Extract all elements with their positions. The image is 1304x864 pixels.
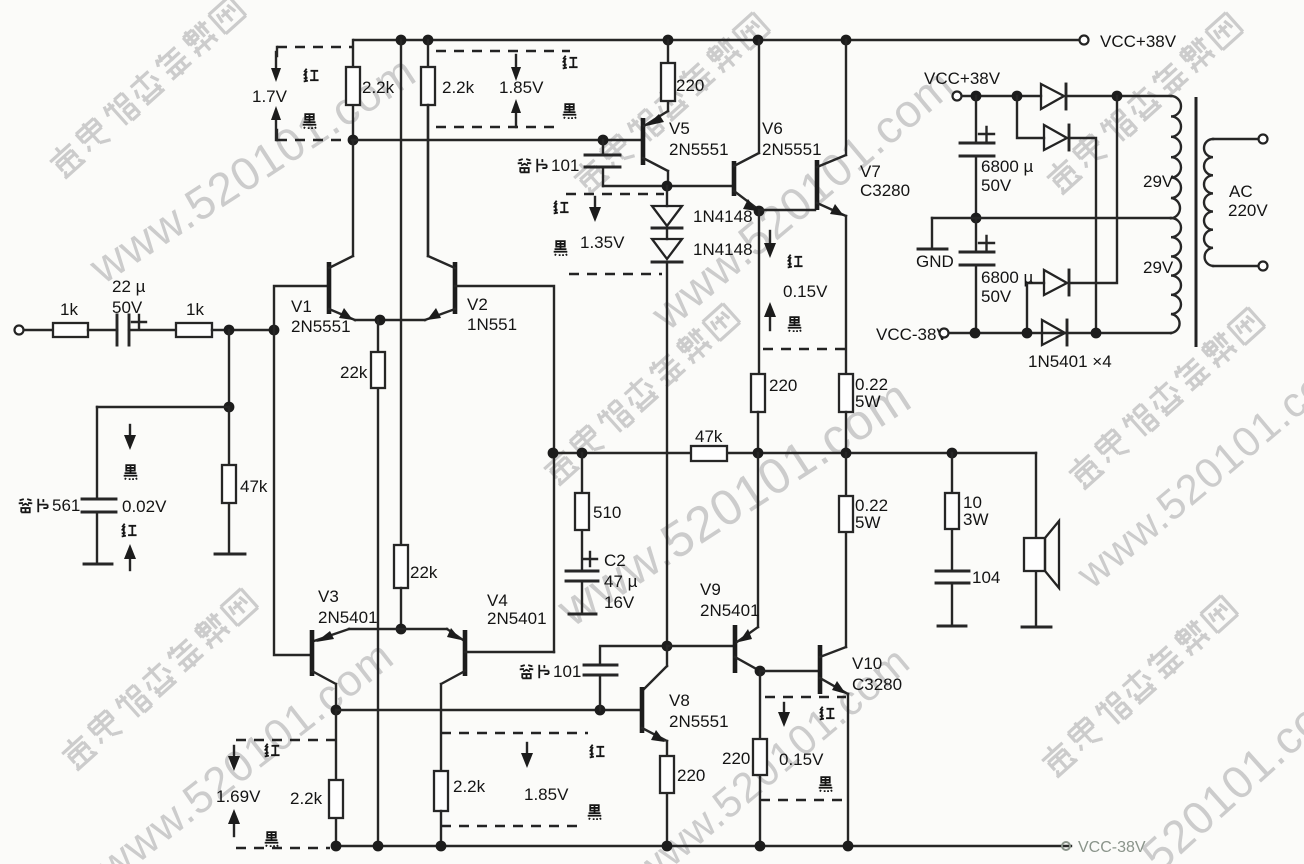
measurement box 1.69V (236, 739, 336, 741)
node V3 collector (331, 705, 342, 716)
svg-text:2N5401: 2N5401 (700, 601, 760, 620)
wire V2 base to feedback node (455, 286, 554, 652)
wire V3 collector to V8 base (336, 709, 640, 711)
watermark 家电维修资料网 left-lower (58, 586, 259, 772)
svg-text:0.15V: 0.15V (779, 750, 824, 769)
node cap 6800u top (971, 91, 982, 102)
wire cap101 to V6 base (603, 185, 732, 187)
wire rail to 22k tail resistor (400, 40, 402, 545)
node 220 V8 (662, 841, 673, 852)
svg-text:5W: 5W (855, 513, 881, 532)
svg-text:220: 220 (722, 749, 750, 768)
svg-text:V5: V5 (669, 119, 690, 138)
transistor V7 C3280 (815, 160, 820, 210)
node rail/220 (663, 35, 674, 46)
resistor 47k (feedback) (691, 446, 727, 461)
capacitor 6800u 50V (upper) (975, 96, 977, 218)
wire input (24, 329, 53, 331)
svg-text:16V: 16V (604, 593, 635, 612)
svg-text:2N5401: 2N5401 (318, 608, 378, 627)
svg-text:VCC+38V: VCC+38V (924, 69, 1001, 88)
svg-text:1.85V: 1.85V (499, 78, 544, 97)
svg-text:47k: 47k (695, 427, 723, 446)
transistor V5 2N5551 (641, 118, 646, 165)
node rail/V6 collector (753, 35, 764, 46)
wire (88, 329, 117, 331)
measurement 0.02V (129, 425, 131, 437)
wire -38V supply row (949, 332, 1171, 334)
node V6 emitter (754, 206, 765, 217)
resistor 220 (V5 collector) (667, 40, 669, 111)
svg-text:47k: 47k (240, 477, 268, 496)
node 22k tail (373, 841, 384, 852)
svg-text:1.35V: 1.35V (580, 233, 625, 252)
svg-text:2N5551: 2N5551 (291, 317, 351, 336)
svg-text:GND: GND (916, 252, 954, 271)
svg-text:www.520101.com: www.520101.com (87, 631, 403, 864)
watermark 家电维修资料网 bottom-right (1038, 593, 1239, 779)
node emitters/22k (375, 315, 386, 326)
svg-text:2.2k: 2.2k (442, 78, 475, 97)
transistor V10 C3280 (818, 645, 823, 694)
measurement box 1.35V (566, 193, 664, 195)
node V8 collector / V9 base (662, 641, 673, 652)
node 10ohm branch (947, 448, 958, 459)
wire V6 emitter to V7 base (759, 209, 815, 211)
svg-text:29V: 29V (1143, 172, 1174, 191)
svg-text:0.02V: 0.02V (122, 497, 167, 516)
resistor 2.2k (V3 collector) (335, 710, 337, 846)
node ceramic 101 lower tap (595, 705, 606, 716)
watermark 家电维修资料网 top-right (1043, 10, 1244, 196)
transistor V3 2N5401 (310, 630, 315, 676)
svg-text:V2: V2 (467, 295, 488, 314)
svg-text:C2: C2 (604, 551, 626, 570)
resistor 220 (V8 emitter) (666, 741, 668, 846)
node rail/V7 collector (841, 35, 852, 46)
resistor 220 (V6 emitter load) (751, 374, 765, 412)
wire +38V top rail (354, 39, 1079, 41)
diode A 1N5401 (1041, 84, 1064, 109)
svg-text:22k: 22k (410, 563, 438, 582)
node V3/V4 emitters (396, 624, 407, 635)
svg-text:1N5401 ×4: 1N5401 ×4 (1028, 352, 1112, 371)
capacitor ceramic 561 (96, 407, 98, 564)
transformer secondary winding (1171, 96, 1181, 218)
wire diode chain down to V9 base node (666, 262, 668, 646)
svg-text:220: 220 (677, 766, 705, 785)
svg-text:47 µ: 47 µ (604, 572, 638, 591)
node V5 emitter / diode chain (662, 181, 673, 192)
svg-text:C3280: C3280 (852, 675, 902, 694)
svg-text:220: 220 (769, 376, 797, 395)
wire V1 collector node to V5 base (352, 139, 641, 141)
measurement box 0.15V (lower) (765, 696, 846, 698)
svg-text:2N5551: 2N5551 (762, 140, 822, 159)
ground GND (931, 218, 933, 249)
wire to diode B (1017, 96, 1044, 138)
svg-text:V4: V4 (487, 591, 508, 610)
wire secondary top down to diode C (1069, 96, 1117, 283)
wire center tap (932, 217, 1171, 219)
svg-text:1.69V: 1.69V (216, 787, 261, 806)
measurement box 1.7V upper-left (277, 46, 352, 48)
node diode C anode (1022, 328, 1033, 339)
svg-text:V9: V9 (700, 580, 721, 599)
transistor V1 2N5551 (327, 262, 332, 314)
wire 47k branch down (228, 330, 230, 407)
node 47k branch (224, 325, 235, 336)
terminal VCC+38V (1080, 36, 1089, 45)
wire V9 collector to V10 base (760, 670, 818, 672)
resistor 22k (V1/V2 emitters) (377, 320, 379, 846)
svg-text:1.7V: 1.7V (252, 87, 288, 106)
resistor 510 (581, 453, 583, 571)
wire to V1 base (212, 329, 274, 331)
wire V10 emitter down (847, 694, 849, 846)
resistor 2.2k (V2 collector load) (427, 40, 429, 256)
node rail/2.2k (423, 35, 434, 46)
diode B 1N5401 (1044, 125, 1067, 150)
svg-text:2N5401: 2N5401 (487, 609, 547, 628)
svg-text:2.2k: 2.2k (362, 78, 395, 97)
capacitor 6800u 50V (lower) (975, 218, 977, 333)
svg-text:V8: V8 (669, 691, 690, 710)
svg-text:www.520101.com: www.520101.com (1067, 339, 1304, 598)
node V2/V4 base riser (548, 448, 559, 459)
measurement box 1.85V (lower) (441, 732, 588, 734)
transistor V2 1N551 (453, 262, 458, 314)
diode 1N4148 (lower) (666, 228, 668, 239)
measurement box 1.85V upper (436, 50, 570, 52)
svg-text:1N4148: 1N4148 (693, 240, 753, 259)
node V9 collector / V10 base (755, 666, 766, 677)
node 220 V9 (755, 841, 766, 852)
svg-text:101: 101 (553, 662, 581, 681)
svg-text:1N4148: 1N4148 (693, 207, 753, 226)
measurement box 0.15V (upper) (769, 231, 771, 245)
watermark 家电维修资料网 top-middle (570, 10, 771, 196)
svg-text:AC: AC (1229, 182, 1253, 201)
svg-text:101: 101 (551, 156, 579, 175)
wire +38V supply row (962, 95, 1041, 97)
diode 1N4148 (upper) (666, 186, 668, 206)
svg-text:1.85V: 1.85V (524, 785, 569, 804)
svg-text:V7: V7 (860, 162, 881, 181)
wire V1 base riser / V3 base line (274, 286, 327, 655)
wire to ceramic 561 (97, 406, 229, 408)
svg-text:1k: 1k (60, 300, 78, 319)
svg-text:50V: 50V (112, 298, 143, 317)
node diode B branch (1012, 91, 1023, 102)
svg-text:2N5551: 2N5551 (669, 712, 729, 731)
node cap lower (970, 328, 981, 339)
svg-text:22 µ: 22 µ (112, 277, 146, 296)
resistor 10 3W (951, 453, 953, 571)
node 2.2k/V1 collector/V5 base (348, 135, 359, 146)
transistor V4 2N5401 (463, 630, 468, 676)
svg-text:V1: V1 (291, 297, 312, 316)
svg-text:1k: 1k (186, 300, 204, 319)
svg-text:50V: 50V (981, 176, 1012, 195)
ground (cap 561) (84, 563, 112, 566)
node 0.22 junction (841, 448, 852, 459)
transformer primary winding (1213, 138, 1258, 140)
node 510 branch (577, 448, 588, 459)
wire output node line (553, 452, 1036, 454)
svg-text:6800 µ: 6800 µ (981, 157, 1034, 176)
resistor 22k (V3/V4 emitters) (394, 545, 408, 588)
svg-text:510: 510 (593, 503, 621, 522)
svg-text:VCC-38V: VCC-38V (1078, 839, 1146, 856)
wire V6 emitter down to 220 (758, 211, 760, 374)
svg-text:1N551: 1N551 (467, 315, 517, 334)
capacitor 22u 50V (117, 315, 129, 345)
node rail/22k tail (396, 35, 407, 46)
node cap561 branch (224, 402, 235, 413)
node V10 emitter (843, 841, 854, 852)
wire -38V bottom rail (336, 845, 1071, 847)
transistor V8 2N5551 (644, 646, 667, 689)
node 2.2k V3 (331, 841, 342, 852)
watermark 家电维修资料网 right-middle (1065, 305, 1266, 491)
svg-text:www.520101.com: www.520101.com (1046, 666, 1304, 864)
ground (47k) (215, 553, 245, 556)
watermark 家电维修资料网 center (540, 301, 741, 487)
watermark 家电维修资料网 top-left (46, 0, 247, 180)
resistor 220 (V9 collector) (753, 739, 767, 775)
svg-text:5W: 5W (855, 392, 881, 411)
node center tap junction (971, 213, 982, 224)
resistor 0.22 5W (upper) (839, 374, 853, 412)
capacitor ceramic 101 (upper) (602, 140, 604, 186)
wire common emitters V1,V2 (355, 319, 425, 321)
resistor 2.2k (V1 collector load) (352, 40, 354, 140)
svg-text:104: 104 (972, 568, 1000, 587)
terminal VCC-38V (faint) (1062, 842, 1070, 850)
svg-text:561: 561 (52, 496, 80, 515)
svg-text:6800 µ: 6800 µ (981, 268, 1034, 287)
svg-text:C3280: C3280 (860, 181, 910, 200)
transformer core (1195, 97, 1198, 347)
node V9 emitter riser (753, 448, 764, 459)
resistor 1k (second) (176, 323, 212, 337)
svg-text:2.2k: 2.2k (453, 777, 486, 796)
capacitor ceramic 101 (lower) (600, 646, 667, 710)
svg-text:V6: V6 (762, 119, 783, 138)
wire common emitters V3,V4 (349, 628, 447, 630)
svg-text:VCC-38V: VCC-38V (876, 325, 948, 344)
svg-text:VCC+38V: VCC+38V (1100, 32, 1177, 51)
wire V9 collector down through 220 (759, 671, 761, 846)
transistor V6 2N5551 (732, 161, 737, 196)
node diode D cathode (1091, 328, 1102, 339)
svg-text:220V: 220V (1228, 201, 1268, 220)
wire (129, 329, 176, 331)
svg-text:220: 220 (676, 76, 704, 95)
svg-text:2N5551: 2N5551 (669, 140, 729, 159)
svg-text:3W: 3W (963, 510, 989, 529)
svg-text:0.15V: 0.15V (783, 282, 828, 301)
resistor 2.2k (V4 collector) (434, 771, 448, 811)
diode D 1N5401 (1042, 320, 1065, 345)
wire V7 emitter down (845, 216, 847, 374)
terminal input (15, 326, 24, 335)
svg-text:50V: 50V (981, 287, 1012, 306)
speaker (1035, 453, 1037, 627)
node base riser (269, 325, 280, 336)
svg-text:V3: V3 (318, 587, 339, 606)
svg-text:29V: 29V (1143, 258, 1174, 277)
resistor 0.22 5W (lower) (845, 453, 847, 647)
node secondary top (1112, 91, 1123, 102)
capacitor 104 (936, 571, 969, 583)
node 2.2k V4 (436, 841, 447, 852)
node ceramic cap tap (598, 135, 609, 146)
capacitor C2 47u 16V (566, 571, 598, 581)
svg-text:V10: V10 (852, 654, 882, 673)
transistor V9 2N5401 (667, 645, 733, 647)
svg-text:22k: 22k (340, 363, 368, 382)
svg-text:2.2k: 2.2k (290, 789, 323, 808)
diode C 1N5401 (1044, 270, 1067, 295)
resistor 1k (input) (53, 323, 88, 337)
resistor 47k (input bias) (228, 407, 230, 554)
